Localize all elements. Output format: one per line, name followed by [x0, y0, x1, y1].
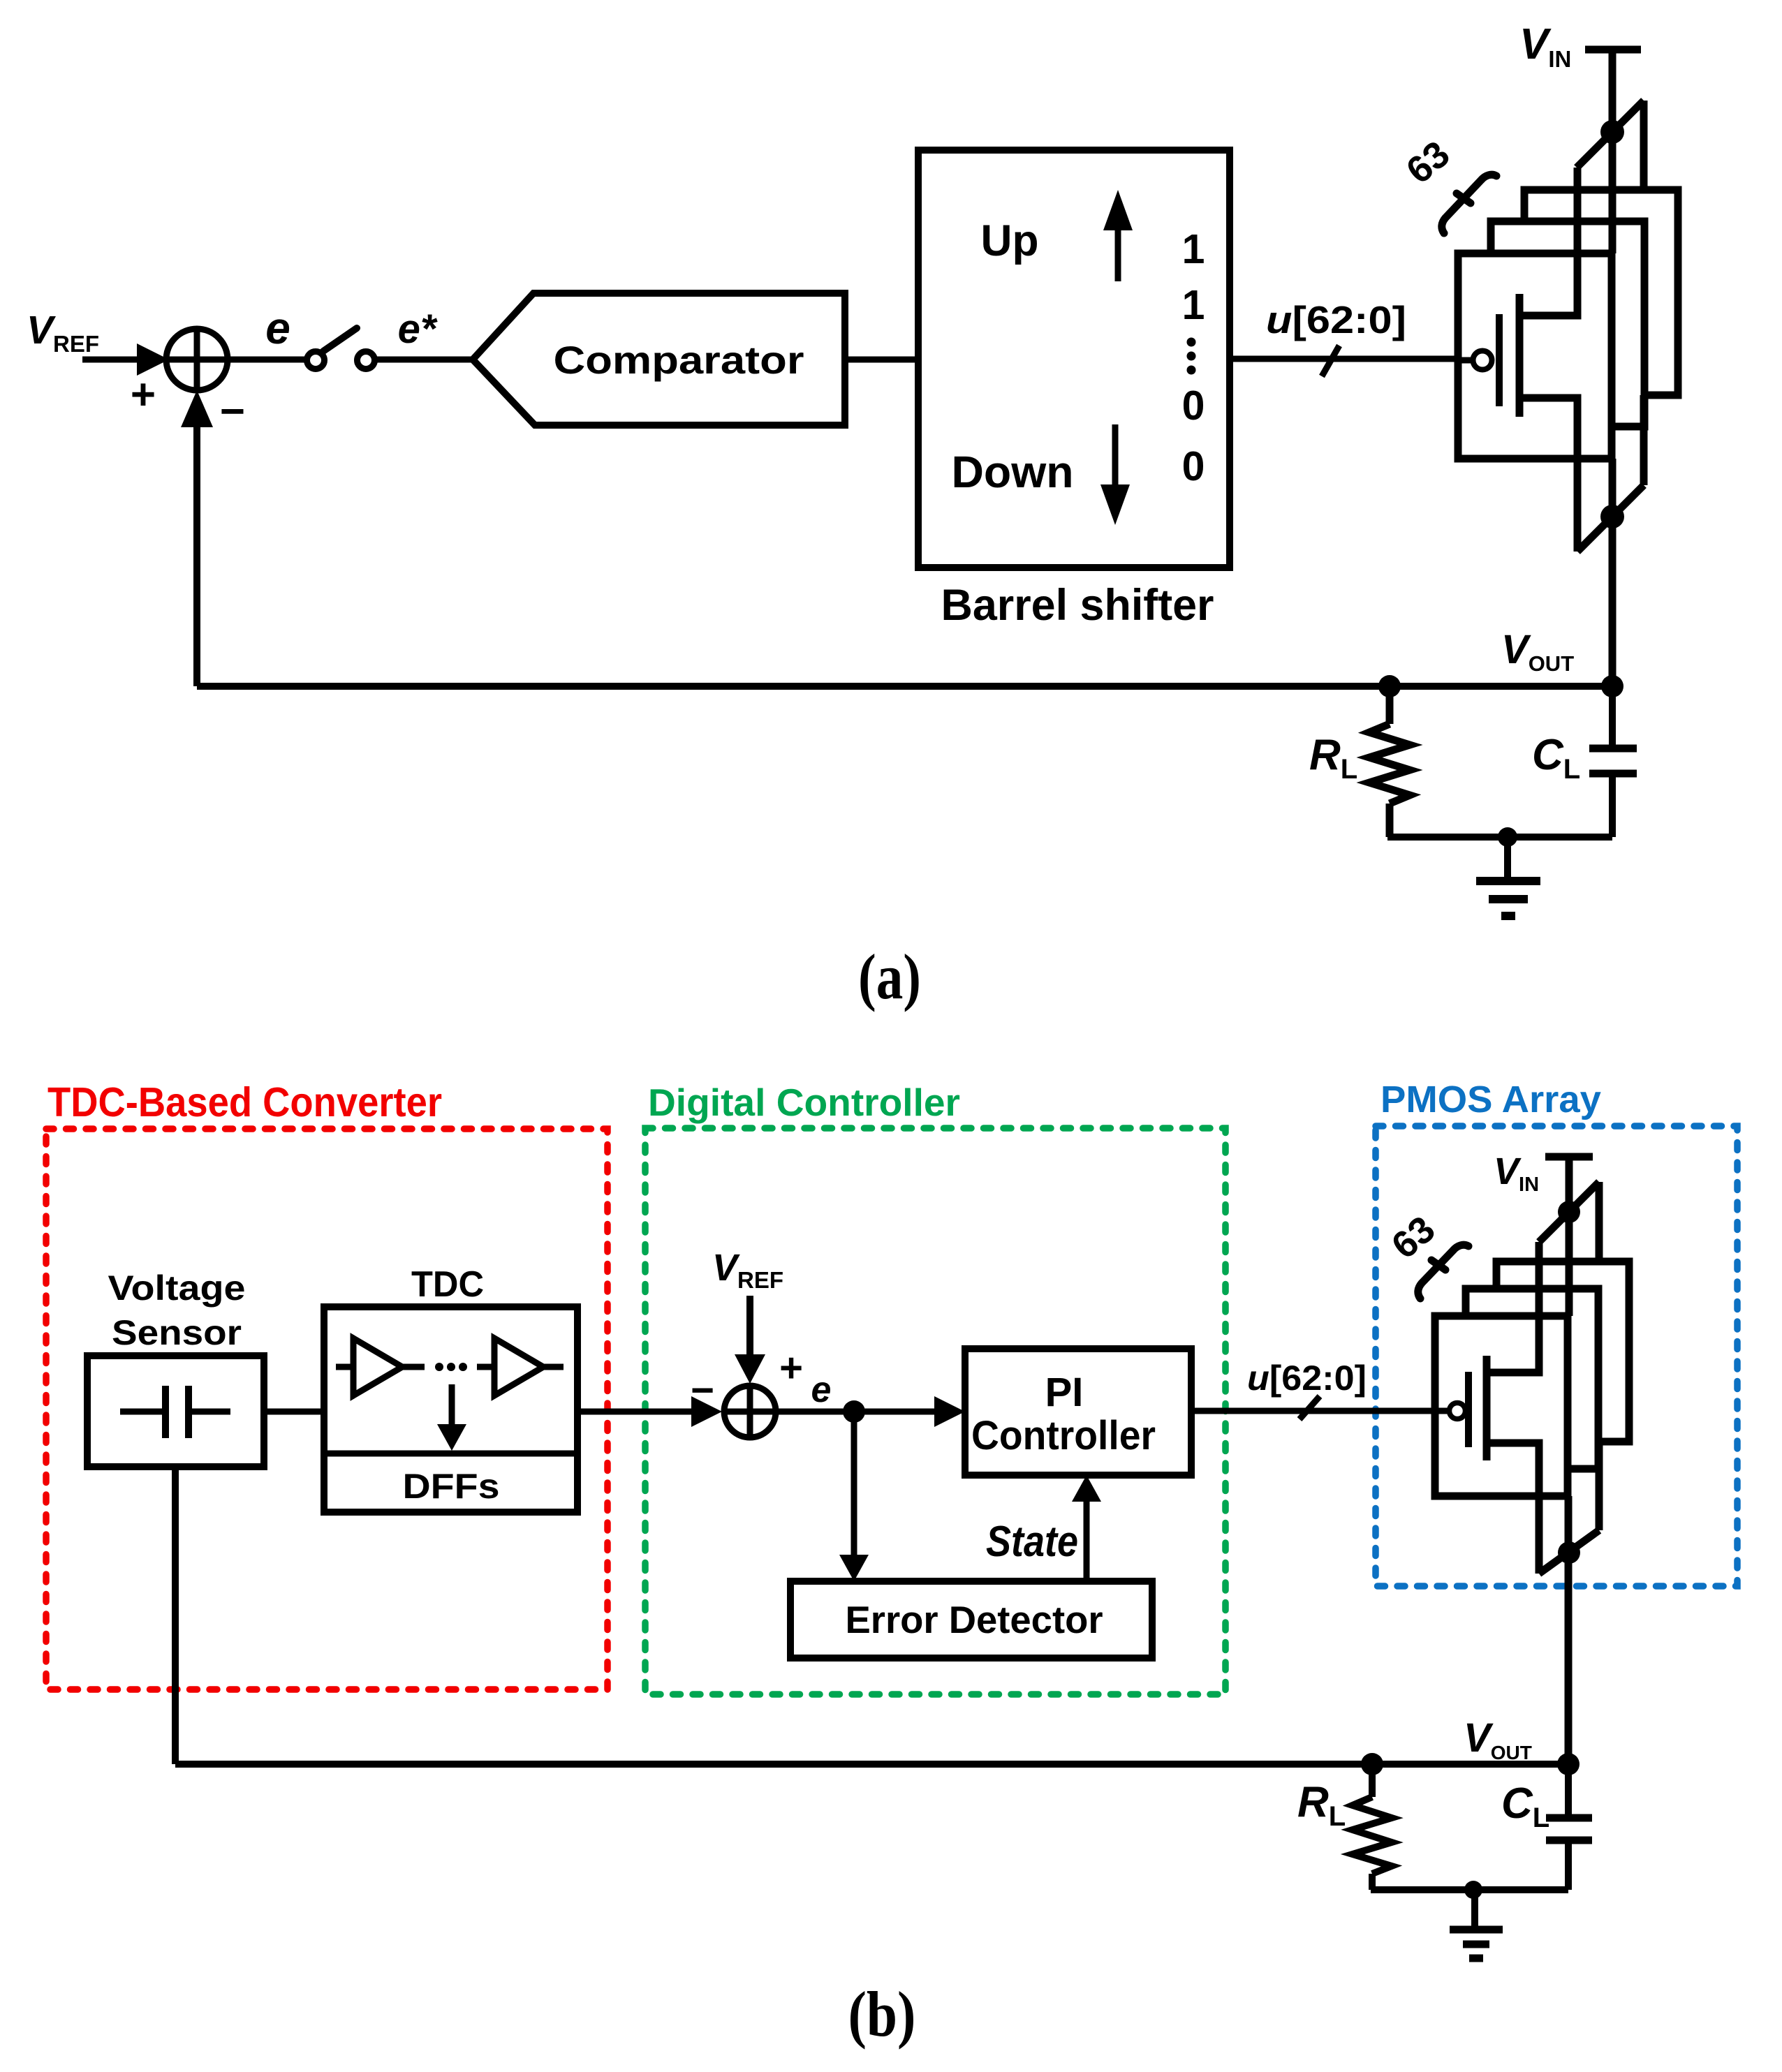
ground symbol (b) — [1450, 1890, 1503, 1958]
wire front cell source lead (b) — [1487, 1242, 1539, 1372]
svg-text:Comparator: Comparator — [554, 338, 804, 382]
wire front cell source lead (a) — [1519, 168, 1577, 316]
pmos array cell rect back (a) — [1524, 190, 1678, 395]
svg-text:Up: Up — [981, 216, 1039, 265]
svg-text:TDC-Based Converter: TDC-Based Converter — [47, 1079, 442, 1125]
barrel shifter up arrow — [1103, 190, 1133, 281]
wire VOUT feedback horizontal (b) — [175, 1761, 1568, 1768]
pmos array cell rect middle (b) — [1466, 1289, 1598, 1469]
svg-text:Down: Down — [952, 447, 1074, 497]
junction dot e node (b) — [843, 1400, 865, 1423]
resistor RL (a) — [1369, 686, 1410, 837]
voltage sensor block — [87, 1268, 264, 1467]
bus slash marker 63 (b) — [1418, 1245, 1468, 1298]
TDC arrow to DFFs — [437, 1384, 466, 1451]
transistor M1 channel bar (a) — [1516, 294, 1524, 417]
wire e to PI controller with arrow — [854, 1396, 965, 1427]
pmos array cell rect back (b) — [1496, 1261, 1629, 1442]
junction dot VIN plane (b) — [1558, 1201, 1580, 1223]
wire e down to error detector with arrow — [839, 1412, 869, 1581]
summing junction S1 (a) — [166, 329, 228, 390]
transistor M1 gate bar (a) — [1496, 314, 1503, 406]
wire u[62:0] bus (b) — [1191, 1408, 1435, 1414]
wire TDC to summing junction with arrow — [577, 1396, 722, 1427]
junction dot VOUT plane (b) — [1558, 1541, 1580, 1564]
svg-text:−: − — [691, 1368, 714, 1413]
svg-text:1: 1 — [1182, 282, 1205, 328]
wire front cell drain lead (b) — [1487, 1443, 1539, 1574]
svg-text:Voltage: Voltage — [108, 1268, 246, 1308]
svg-text:Sensor: Sensor — [112, 1313, 242, 1352]
ground symbol (a) — [1476, 837, 1540, 916]
transistor M2 pmos gate bubble (b) — [1450, 1403, 1466, 1419]
svg-text:Barrel shifter: Barrel shifter — [941, 581, 1214, 630]
wire state arrow error detector to PI — [1072, 1475, 1101, 1581]
wire VREF arrow (b) — [735, 1296, 765, 1384]
wire gate input (b) — [1435, 1408, 1448, 1414]
wire VOUT plane diagonal bottom (a) — [1577, 485, 1644, 552]
PI controller block — [965, 1349, 1191, 1475]
junction dot at RL (a) — [1378, 675, 1401, 697]
barrel shifter down arrow — [1100, 424, 1130, 525]
junction dot VIN plane (a) — [1600, 120, 1624, 144]
svg-text:e: e — [811, 1370, 832, 1410]
wire VIN vertical (a) — [1609, 50, 1617, 253]
svg-text:+: + — [131, 371, 156, 419]
svg-text:Digital Controller: Digital Controller — [648, 1081, 960, 1124]
wire back cell drain lead (b) — [1596, 1442, 1603, 1530]
svg-text:0: 0 — [1182, 443, 1205, 489]
wire gate input (a) — [1458, 357, 1472, 364]
svg-text:−: − — [220, 387, 245, 436]
transistor M2 channel bar (b) — [1483, 1356, 1491, 1460]
barrel shifter U2 block — [918, 150, 1230, 568]
region box TDC-Based Converter — [46, 1129, 607, 1689]
TDC block — [324, 1264, 577, 1512]
summing junction S2 (b) — [724, 1386, 776, 1437]
svg-text:1: 1 — [1182, 226, 1205, 272]
wire VIN vertical (b) — [1566, 1157, 1573, 1316]
wire summing to e node (b) — [778, 1409, 854, 1415]
wire VIN plane diagonal top (a) — [1577, 101, 1644, 168]
svg-text:PI: PI — [1045, 1370, 1084, 1415]
region box Digital Controller — [645, 1128, 1225, 1694]
wire load bottom (a) — [1387, 834, 1612, 841]
resistor RL (b) — [1353, 1764, 1392, 1890]
svg-text:e*: e* — [398, 306, 438, 352]
wire feedback vertical below sensor (b) — [172, 1467, 179, 1764]
capacitor symbol inside voltage sensor — [120, 1386, 230, 1438]
junction dot VOUT plane (a) — [1600, 505, 1624, 528]
junction dot at RL (b) — [1361, 1753, 1383, 1775]
pmos array cell rect front (a) — [1458, 253, 1612, 459]
svg-text:PMOS Array: PMOS Array — [1380, 1079, 1601, 1120]
svg-text:State: State — [986, 1518, 1078, 1566]
svg-text:e: e — [265, 303, 290, 353]
wire sensor to TDC — [264, 1409, 324, 1415]
svg-text:Error Detector: Error Detector — [846, 1598, 1103, 1641]
wire VOUT vertical from array (a) — [1609, 459, 1617, 686]
barrel shifter bit column 1 1 dots 0 0 — [1182, 226, 1205, 489]
junction dot ground node (b) — [1464, 1881, 1482, 1899]
pmos array cell rect front (b) — [1435, 1316, 1568, 1496]
svg-text:Controller: Controller — [971, 1413, 1156, 1458]
wire VREF input with arrow — [82, 343, 169, 376]
svg-text:(b): (b) — [848, 1978, 916, 2050]
wire back cell source lead (a) — [1640, 101, 1648, 190]
power VIN terminal bar (b) — [1545, 1153, 1593, 1161]
wire back cell drain lead (a) — [1640, 395, 1648, 485]
TDC ellipsis dots — [435, 1363, 467, 1371]
wire VOUT feedback horizontal (a) — [197, 683, 1612, 690]
wire back cell source lead (b) — [1596, 1182, 1603, 1261]
wire feedback arrow into summing junction (a) — [181, 390, 213, 686]
wire VOUT plane diagonal bottom (b) — [1539, 1530, 1599, 1574]
bus slash marker 63 (a) — [1442, 175, 1496, 233]
comparator U1 block — [473, 293, 845, 425]
wire VOUT vertical from array (b) — [1565, 1496, 1573, 1764]
wire comparator to barrel shifter — [845, 357, 918, 363]
junction dot at VOUT corner (b) — [1557, 1753, 1579, 1775]
region box PMOS Array — [1376, 1126, 1737, 1586]
junction dot ground node (a) — [1498, 827, 1517, 847]
wire VIN plane diagonal top (b) — [1539, 1182, 1599, 1242]
svg-text:(a): (a) — [858, 941, 921, 1012]
svg-text:u[62:0]: u[62:0] — [1247, 1359, 1367, 1398]
power VIN terminal bar (a) — [1585, 46, 1641, 54]
wire front cell drain lead (a) — [1519, 398, 1577, 552]
svg-text:0: 0 — [1182, 383, 1205, 429]
junction dot at VOUT corner (a) — [1601, 675, 1623, 697]
switch SW1 sampler — [307, 328, 375, 369]
TDC delay buffer 1 — [336, 1338, 425, 1396]
capacitor CL (a) — [1589, 686, 1637, 837]
transistor M2 gate bar (b) — [1465, 1372, 1472, 1447]
svg-text:u[62:0]: u[62:0] — [1266, 298, 1406, 341]
error detector block — [790, 1581, 1152, 1658]
wire load bottom (b) — [1371, 1886, 1568, 1893]
wire u[62:0] bus (a) — [1230, 356, 1458, 362]
TDC delay buffer 2 — [477, 1338, 564, 1396]
wire switch to comparator — [376, 357, 475, 363]
pmos array cell rect middle (a) — [1491, 221, 1644, 427]
bus slash (a) — [1322, 346, 1339, 376]
transistor M1 pmos gate bubble (a) — [1473, 351, 1492, 370]
svg-text:+: + — [779, 1345, 803, 1391]
bus slash (b) — [1299, 1396, 1320, 1419]
capacitor CL (b) — [1546, 1764, 1592, 1890]
svg-text:DFFs: DFFs — [403, 1467, 500, 1506]
svg-text:TDC: TDC — [411, 1264, 484, 1305]
wire summing junction to switch — [228, 357, 308, 363]
